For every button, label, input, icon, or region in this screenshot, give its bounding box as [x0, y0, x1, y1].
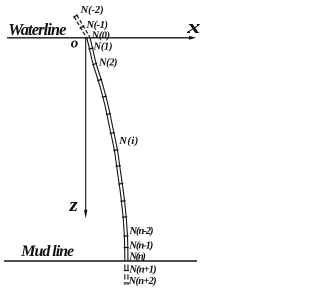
node tick segment joint [116, 165, 121, 168]
node tick N(n-2) [123, 235, 128, 237]
node tick segment joint [118, 182, 123, 185]
svg-text:N(0): N(0) [91, 31, 111, 42]
node tick N(-1) [80, 26, 84, 29]
pile below mud line (imaginary, dashed) [125, 262, 128, 285]
x-axis arrowhead [189, 36, 196, 40]
svg-text:Mud line: Mud line [20, 243, 74, 260]
svg-text:N(2): N(2) [98, 57, 118, 68]
node tick N(1) [88, 48, 93, 49]
node tick N(2) [92, 63, 97, 64]
svg-text:N(n): N(n) [128, 251, 146, 262]
z-axis line [85, 38, 87, 212]
node tick segment joint [110, 132, 115, 133]
pile shaft below waterline (solid strip) [87, 38, 128, 261]
svg-text:N(i): N(i) [118, 136, 138, 147]
pile segment above waterline (imaginary, dashed) [74, 15, 90, 39]
svg-text:N(n-1): N(n-1) [128, 240, 153, 251]
svg-text:N(n-2): N(n-2) [129, 226, 154, 237]
svg-text:N(n+2): N(n+2) [128, 276, 157, 287]
node tick N(n+1) [124, 270, 129, 272]
node tick segment joint [102, 96, 107, 97]
node tick segment joint [106, 113, 111, 114]
node tick segment joint [97, 79, 102, 81]
bottom end cap at node N(n+2) [124, 282, 129, 284]
svg-text:o: o [71, 35, 79, 51]
svg-text:Waterline: Waterline [8, 20, 66, 39]
waterline / x-axis line [7, 37, 194, 39]
mud line [4, 260, 197, 262]
svg-text:N(n+1): N(n+1) [128, 264, 156, 275]
svg-text:x: x [186, 16, 200, 37]
node tick segment joint [120, 200, 125, 203]
node tick segment joint [122, 216, 127, 218]
svg-text:N(-2): N(-2) [80, 5, 104, 16]
pile top end cap at node N(-2) [73, 15, 77, 18]
svg-text:N(-1): N(-1) [86, 20, 109, 31]
z-axis arrowhead [84, 210, 87, 219]
node tick N(n-1) [124, 246, 129, 248]
svg-text:z: z [68, 195, 77, 216]
svg-text:N(1): N(1) [93, 41, 113, 52]
node tick segment joint [113, 149, 118, 152]
